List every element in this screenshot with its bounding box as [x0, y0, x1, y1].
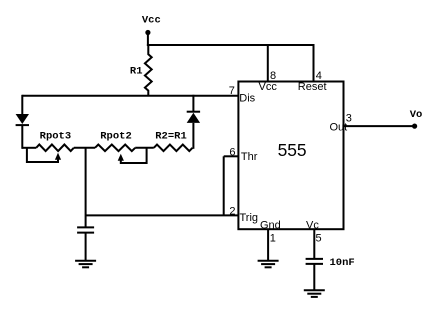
svg-text:R2=R1: R2=R1: [155, 131, 187, 143]
svg-text:5: 5: [316, 233, 322, 245]
pin 4 name Reset: [298, 81, 327, 93]
label R2=R1: [155, 131, 187, 143]
label Vcc supply: [142, 15, 161, 27]
wire Trig rail: [86, 214, 239, 216]
label Vo: [410, 109, 423, 121]
ground G2: [258, 261, 279, 268]
svg-text:R1: R1: [130, 66, 143, 78]
wire pin 4 drop: [313, 45, 315, 82]
svg-text:555: 555: [278, 140, 307, 160]
pin 8 name Vcc: [259, 81, 278, 93]
svg-text:Dis: Dis: [239, 93, 255, 105]
svg-text:6: 6: [229, 147, 235, 159]
wire pin 5 Vc drop: [313, 229, 315, 258]
resistor R2 (R2=R1): [154, 145, 193, 152]
label Rpot3: [40, 131, 72, 143]
wire bottom rail segment A: [22, 147, 36, 149]
wire Thr branch vertical: [223, 156, 225, 215]
pin 6 name Thr: [241, 151, 258, 163]
label 10nF: [330, 257, 355, 269]
pin 1 name Gnd: [260, 220, 281, 232]
capacitor C1: [77, 227, 94, 260]
node Vo terminal dot: [412, 124, 417, 129]
pin 2 number: [229, 205, 235, 217]
wire capacitor branch vertical: [85, 148, 87, 227]
svg-text:Vo: Vo: [410, 109, 423, 121]
svg-text:7: 7: [229, 85, 235, 97]
wire bottom rail segment C: [135, 147, 154, 149]
node Vcc terminal dot: [145, 30, 150, 35]
potentiometer Rpot3: [36, 145, 74, 152]
svg-text:Vcc: Vcc: [142, 15, 161, 27]
wiper arrow Rpot3: [27, 148, 61, 162]
svg-text:Gnd: Gnd: [260, 220, 281, 232]
wire bottom rail segment B: [74, 147, 95, 149]
pin 4 number: [316, 70, 322, 82]
svg-text:Thr: Thr: [241, 151, 258, 163]
pin 1 number: [270, 233, 276, 245]
svg-text:Trig: Trig: [240, 212, 259, 224]
pin 7 name Dis: [239, 93, 255, 105]
svg-text:Rpot2: Rpot2: [100, 131, 132, 143]
wire Thr stub: [224, 155, 239, 157]
svg-text:1: 1: [270, 233, 276, 245]
svg-text:Vcc: Vcc: [259, 81, 278, 93]
wiper arrow Rpot2: [118, 148, 147, 163]
svg-text:Rpot3: Rpot3: [40, 131, 72, 143]
pin 2 name Trig: [240, 212, 259, 224]
pin 3 number: [346, 113, 352, 125]
svg-text:Vc: Vc: [306, 220, 319, 232]
wire Out: [344, 125, 415, 127]
capacitor C2 (10nF): [306, 259, 323, 290]
label R1: [130, 66, 143, 78]
pin 5 number: [316, 233, 322, 245]
wire Vcc stem: [147, 33, 149, 47]
pin 7 number: [229, 85, 235, 97]
svg-text:Out: Out: [330, 122, 348, 134]
potentiometer Rpot2: [95, 145, 135, 152]
pin 8 number: [270, 70, 276, 82]
wire top rail: [147, 44, 315, 46]
ground G3: [304, 290, 325, 297]
IC U1 555 body: [238, 82, 343, 230]
label Rpot2: [100, 131, 132, 143]
wire pin 8 drop: [267, 45, 269, 82]
svg-text:10nF: 10nF: [330, 257, 355, 269]
ground G1: [75, 261, 96, 268]
pin 6 number: [229, 147, 235, 159]
wire upper rail (Dis rail): [22, 95, 238, 97]
diode D2 (right, pointing up): [187, 95, 200, 149]
pin 5 name Vc: [306, 220, 319, 232]
label 555: [278, 140, 307, 160]
diode D1 (left, pointing down): [16, 95, 29, 149]
pin 3 name Out: [330, 122, 348, 134]
wire pin 1 Gnd drop: [267, 229, 269, 260]
resistor R1: [145, 45, 152, 96]
svg-text:Reset: Reset: [298, 81, 327, 93]
svg-text:2: 2: [229, 205, 235, 217]
